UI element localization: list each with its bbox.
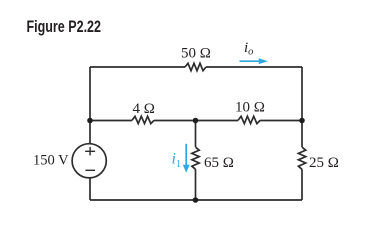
svg-text:io: io (244, 40, 253, 57)
resistor 4Ω zigzag (132, 116, 154, 123)
wire top left segment (90, 66, 185, 68)
svg-text:25 Ω: 25 Ω (309, 155, 339, 171)
junction dot bottom center node (193, 197, 199, 203)
wire bottom (90, 199, 302, 201)
wire center branch top (center node to 65Ω) (195, 121, 197, 148)
wire right top (top corner to right node) (301, 67, 303, 121)
svg-text:150 V: 150 V (33, 153, 69, 169)
wire left (middle node to source) (89, 121, 91, 144)
current arrow i_o (240, 58, 268, 64)
voltage source V 150V (72, 144, 106, 178)
svg-text:65 Ω: 65 Ω (204, 155, 234, 171)
junction dot right middle node (299, 118, 305, 124)
wire top right segment (206, 66, 302, 68)
resistor 10Ω zigzag (238, 116, 260, 123)
svg-text:4 Ω: 4 Ω (133, 101, 155, 117)
junction dot left middle node (87, 118, 93, 124)
resistor 50Ω zigzag (185, 63, 206, 70)
current arrow i_1 (183, 144, 190, 173)
svg-text:10 Ω: 10 Ω (235, 100, 265, 116)
svg-text:Figure P2.22: Figure P2.22 (27, 17, 102, 36)
resistor 25Ω zigzag (298, 147, 305, 169)
wire left bottom (source to bottom corner) (89, 178, 91, 201)
svg-text:50 Ω: 50 Ω (181, 46, 211, 62)
wire middle segment a (left node to 4Ω) (90, 120, 132, 122)
wire left top (top corner to middle node) (89, 67, 91, 121)
junction dot center middle node (193, 118, 199, 124)
resistor 65Ω zigzag (192, 147, 199, 169)
wire center branch bottom (65Ω to bottom node) (195, 169, 197, 200)
wire middle segment b (4Ω to center node) (154, 120, 238, 122)
svg-text:i1: i1 (172, 151, 181, 171)
wire right (right node to 25Ω) (301, 121, 303, 148)
wire middle segment c (10Ω to right node) (260, 120, 302, 122)
wire right bottom (25Ω to bottom corner) (301, 169, 303, 200)
